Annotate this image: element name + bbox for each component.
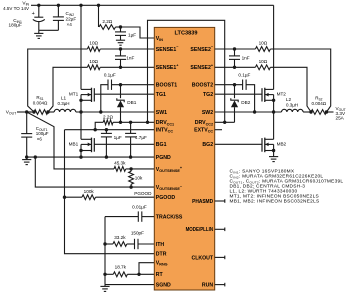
junction 10k bottom xyxy=(129,185,132,188)
junction RT at ground rail xyxy=(103,273,106,276)
svg-text:4.5V TO 14V: 4.5V TO 14V xyxy=(3,6,29,11)
svg-text:2.2Ω: 2.2Ω xyxy=(102,19,112,24)
resistor 10ohm SENSE1- xyxy=(87,41,154,52)
svg-text:MT2: MT2 xyxy=(277,92,287,97)
svg-text:MB1: MB1 xyxy=(69,142,79,147)
junction DB1 anode at DRVCC1 xyxy=(119,121,122,124)
label VIN xyxy=(3,0,29,11)
transistor MB2 xyxy=(262,112,287,157)
svg-text:SW2: SW2 xyxy=(202,110,213,116)
svg-text:BOOST1: BOOST1 xyxy=(156,83,177,89)
svg-text:L2: L2 xyxy=(286,97,292,102)
svg-text:TG1: TG1 xyxy=(156,92,166,98)
svg-text:10Ω: 10Ω xyxy=(259,41,268,46)
resistor 45.3k xyxy=(114,161,154,172)
resistor 18.7k RT xyxy=(105,265,154,277)
junction boost2 cap to SW2 xyxy=(253,110,256,113)
svg-text:BG2: BG2 xyxy=(202,142,213,148)
pin stub RUN xyxy=(215,283,225,287)
svg-text:0.3µH: 0.3µH xyxy=(286,102,298,107)
capacitor CIN1 180uF electrolytic xyxy=(9,5,45,30)
wire VOUTSENSE+ remote sense xyxy=(27,112,114,169)
wire RS1 to L1 xyxy=(48,111,54,113)
junction 1nF2 top xyxy=(233,47,236,50)
svg-text:MODE/PLLIN: MODE/PLLIN xyxy=(186,227,214,233)
svg-text:CLKOUT: CLKOUT xyxy=(191,255,213,261)
junction SW1 at MT1/MB1 xyxy=(79,110,82,113)
junction PGND left xyxy=(25,155,28,158)
svg-text:10Ω: 10Ω xyxy=(259,59,268,64)
wire SENSE2+ kelvin xyxy=(215,65,313,114)
junction 4.7uF at PGND xyxy=(129,155,132,158)
svg-text:×6: ×6 xyxy=(37,136,43,141)
capacitor COUT1 100uF x6 xyxy=(21,112,49,157)
svg-text:TG2: TG2 xyxy=(203,92,213,98)
junction CIN2 top xyxy=(57,4,60,7)
junction VRNG at RT xyxy=(137,273,140,276)
wire TG2 xyxy=(215,93,262,95)
ground CIN xyxy=(34,30,43,38)
svg-text:0.3µH: 0.3µH xyxy=(57,101,69,106)
wire filter node to VIN pin xyxy=(121,27,155,38)
svg-text:100µF: 100µF xyxy=(36,131,49,136)
junction VOUTSENSE- at PGND xyxy=(34,155,37,158)
wire INTVCC rail to DTR xyxy=(65,130,155,254)
resistor 100k PGOOD pullup xyxy=(65,189,155,200)
junction filter node xyxy=(119,25,122,28)
svg-text:0.1µF: 0.1µF xyxy=(104,72,116,77)
junction 1nF top xyxy=(119,47,122,50)
svg-text:0.01µF: 0.01µF xyxy=(132,205,147,210)
ground 1uF VIN bypass xyxy=(116,40,125,45)
svg-text:10Ω: 10Ω xyxy=(89,41,98,46)
diode DB2 xyxy=(231,85,251,123)
svg-text:BG1: BG1 xyxy=(156,142,167,148)
wire SW2 row xyxy=(215,111,282,113)
capacitor 1nF SENSE2 xyxy=(229,49,250,67)
resistor 33.2k ITH xyxy=(105,235,127,246)
svg-text:150pF: 150pF xyxy=(131,231,144,236)
svg-text:TRACK/SS: TRACK/SS xyxy=(156,215,183,221)
wire L2 to RS2 xyxy=(303,111,311,113)
op-amp U1 LTC3839 controller xyxy=(154,27,214,290)
junction INTVCC rail at PGOOD pullup xyxy=(63,196,66,199)
wire DRVCC2 row xyxy=(215,121,235,123)
svg-text:SENSE2+: SENSE2+ xyxy=(190,63,213,71)
svg-text:1nF: 1nF xyxy=(126,56,134,61)
node VOUT right 3.3V 25A xyxy=(336,106,346,121)
junction CIN1 top xyxy=(37,4,40,7)
svg-text:PGOOD: PGOOD xyxy=(156,195,176,201)
svg-text:1nF: 1nF xyxy=(242,56,250,61)
svg-text:PGOOD: PGOOD xyxy=(134,191,152,196)
pin stub PHASMD xyxy=(215,199,225,203)
wire VOUTSENSE- to PGND xyxy=(35,157,154,187)
junction 1nF bottom xyxy=(119,66,122,69)
resistor 2.2ohm INTVCC-DRVCC xyxy=(95,115,154,130)
wire SW1 node to IC xyxy=(76,111,155,113)
wire SENSE2- kelvin xyxy=(215,47,331,114)
svg-text:18.7k: 18.7k xyxy=(115,265,127,270)
junction DRVCC2 rail xyxy=(223,121,226,124)
svg-text:10Ω: 10Ω xyxy=(89,59,98,64)
U1 pin labels xyxy=(156,36,214,289)
junction MT1 drain at rail xyxy=(79,4,82,7)
pin stub CLKOUT xyxy=(215,256,225,260)
junction 10k top xyxy=(129,167,132,170)
diode DB1 xyxy=(117,85,137,123)
wire SGND row xyxy=(105,284,154,286)
svg-text:0.1µF: 0.1µF xyxy=(238,72,250,77)
junction SW2 at MT2/MB2 xyxy=(272,110,275,113)
svg-text:10k: 10k xyxy=(135,176,143,181)
svg-text:1µF: 1µF xyxy=(128,33,136,38)
resistor 10ohm SENSE1+ xyxy=(87,59,154,70)
svg-text:LTC3839: LTC3839 xyxy=(175,30,198,36)
svg-text:0.004Ω: 0.004Ω xyxy=(33,101,48,106)
ground PGND xyxy=(22,157,31,165)
svg-text:DTR: DTR xyxy=(156,252,167,258)
ground MB2 source xyxy=(269,157,278,162)
wire MT2 drain to VIN rail xyxy=(273,5,275,89)
svg-text:ITH: ITH xyxy=(156,242,165,248)
svg-text:SENSE1+: SENSE1+ xyxy=(156,63,179,71)
capacitor 0.1uF BOOST1 xyxy=(101,72,155,112)
capacitor 1uF VIN bypass xyxy=(115,27,136,40)
capacitor 150pF ITH xyxy=(127,231,155,250)
junction VOUT node xyxy=(25,110,28,113)
wire TG1 xyxy=(94,93,154,95)
capacitor CIN2 22uF x4 xyxy=(53,5,76,30)
junction 2.2ohm branch at rail xyxy=(97,4,100,7)
label 10ohm SENSE2+ xyxy=(259,59,268,64)
junction DB1/DRVCC1 xyxy=(129,121,132,124)
svg-text:SGND: SGND xyxy=(156,283,171,289)
resistor 10k xyxy=(129,169,143,187)
node VIN supply rail (4.5V-14V) xyxy=(31,4,274,6)
svg-text:PHASMD: PHASMD xyxy=(192,199,213,205)
svg-text:DB1: DB1 xyxy=(127,100,136,105)
wire INTVCC row xyxy=(65,129,155,131)
transistor MT2 xyxy=(262,88,286,112)
inductor L1 0.3uH xyxy=(54,96,76,112)
junction BOOST1 node xyxy=(119,83,122,86)
capacitor 1nF SENSE1 xyxy=(115,49,134,67)
wire VRNG to RT xyxy=(139,263,154,275)
svg-text:MB1, MB2: INFINEON BSC032NE2LS: MB1, MB2: INFINEON BSC032NE2LS xyxy=(230,198,320,204)
junction MB1 source at PGND xyxy=(79,155,82,158)
pin stub MODE/PLLIN xyxy=(215,228,225,232)
inductor L2 0.3uH xyxy=(282,97,304,112)
junction boost1 cap to SW1 xyxy=(99,110,102,113)
transistor MB1 xyxy=(69,112,95,157)
capacitor 0.1uF BOOST2 xyxy=(215,72,255,112)
wire SENSE1+ kelvin from RS1 right xyxy=(48,67,87,112)
svg-text:SENSE1−: SENSE1− xyxy=(156,45,179,53)
wire DRVCC1 to DRVCC2 rail xyxy=(148,20,225,122)
svg-text:L1: L1 xyxy=(61,96,67,101)
svg-text:1µF: 1µF xyxy=(114,135,122,140)
svg-text:45.3k: 45.3k xyxy=(114,161,126,166)
wire RS2 to VOUT xyxy=(327,111,334,113)
capacitor 0.01uF TRACK/SS xyxy=(105,205,154,222)
svg-text:0.004Ω: 0.004Ω xyxy=(311,101,326,106)
note component list xyxy=(230,169,344,205)
svg-text:22µF: 22µF xyxy=(66,17,77,22)
svg-text:100k: 100k xyxy=(84,189,95,194)
junction BOOST2 node xyxy=(233,83,236,86)
svg-text:×4: ×4 xyxy=(67,22,73,27)
capacitor 1uF INTVCC xyxy=(101,130,122,157)
resistor RS1 0.004ohm xyxy=(27,95,50,115)
node VOUT left xyxy=(6,110,31,116)
junction DRVCC1 rail xyxy=(146,121,149,124)
pin stub EXTVCC xyxy=(215,129,222,131)
svg-text:BOOST2: BOOST2 xyxy=(192,83,213,89)
svg-text:L1, L2: WÜRTH 7443340030: L1, L2: WÜRTH 7443340030 xyxy=(230,188,298,195)
svg-text:RUN: RUN xyxy=(202,283,213,289)
svg-text:SENSE2−: SENSE2− xyxy=(190,45,213,53)
resistor 2.2ohm VIN filter xyxy=(99,5,121,29)
svg-text:25A: 25A xyxy=(336,116,345,121)
svg-text:4.7µF: 4.7µF xyxy=(135,135,147,140)
wire PGND row xyxy=(27,156,155,158)
svg-text:MB2: MB2 xyxy=(277,142,287,147)
wire BG1 xyxy=(94,143,154,145)
svg-text:180µF: 180µF xyxy=(9,23,22,28)
wire SENSE1- kelvin from RS1 left xyxy=(28,49,88,112)
wire CIN1 to CIN2 bottom xyxy=(39,29,59,31)
svg-text:2.2Ω: 2.2Ω xyxy=(103,115,113,120)
junction 1uF INTVCC xyxy=(105,128,108,131)
svg-text:SW1: SW1 xyxy=(156,110,167,116)
svg-text:33.2k: 33.2k xyxy=(114,235,126,240)
svg-text:PGND: PGND xyxy=(156,155,171,161)
ground SGND xyxy=(100,285,109,292)
junction 1nF2 bottom xyxy=(233,66,236,69)
svg-text:MT1: MT1 xyxy=(69,92,79,97)
junction 2.2ohm at INTVCC xyxy=(94,128,97,131)
wire ground rail TRACK to SGND xyxy=(104,217,106,285)
junction 1uF at PGND xyxy=(105,155,108,158)
transistor MT1 xyxy=(69,5,94,112)
label 10ohm SENSE2- xyxy=(259,41,268,46)
svg-text:RT: RT xyxy=(156,272,164,278)
capacitor 4.7uF DRVCC xyxy=(125,122,147,157)
svg-text:DB2: DB2 xyxy=(241,100,250,105)
resistor RS2 0.004ohm xyxy=(311,95,327,114)
junction ITH at ground rail xyxy=(103,242,106,245)
svg-text:+: + xyxy=(32,11,35,17)
wire BG2 xyxy=(215,143,262,145)
